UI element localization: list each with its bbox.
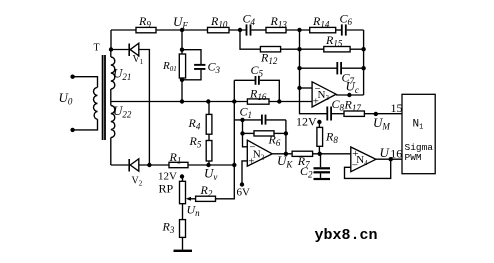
resistor R4 <box>206 114 212 134</box>
wire minus-node vertical x=299.5 <box>300 30 327 114</box>
node Uv <box>206 163 210 167</box>
capacitor C7 <box>336 62 342 74</box>
node R12-R15 <box>297 47 301 51</box>
svg-text:PWM: PWM <box>405 152 422 163</box>
wire N3 minus input <box>300 87 313 89</box>
wire U22 bottom lead <box>110 138 112 166</box>
capacitor C2 <box>314 167 331 173</box>
ground <box>174 250 193 252</box>
wire R7 to N4 <box>313 153 351 155</box>
wire U22 top lead <box>110 102 112 106</box>
node R15 right <box>361 47 365 51</box>
wire N4 output <box>376 158 402 160</box>
wire R14 to C6 <box>336 29 341 31</box>
node Uv-R2 junction <box>232 163 236 167</box>
wire U22 to V2 <box>111 164 129 166</box>
capacitor C8 <box>326 107 332 121</box>
resistor R17 <box>344 111 364 116</box>
diode V1 <box>128 43 138 56</box>
wire C7 right <box>342 67 364 69</box>
wire top rail left segment <box>111 29 136 31</box>
wire node to R15 <box>300 48 324 50</box>
node R6 right <box>284 131 288 135</box>
diode V2 <box>128 159 138 172</box>
svg-text:UK: UK <box>277 153 293 170</box>
svg-text:UM: UM <box>373 115 390 132</box>
wire R12 to node <box>281 48 300 50</box>
resistor R14 <box>310 27 336 32</box>
node C5 right <box>277 99 281 103</box>
wire R4 top lead <box>208 102 210 115</box>
wire RP bottom to R3 <box>182 204 184 220</box>
wire feedback vertical right <box>363 30 365 95</box>
svg-text:U0: U0 <box>59 90 73 107</box>
node secondary top junction <box>109 47 113 51</box>
node Uc <box>347 93 351 97</box>
node N4 output <box>389 157 393 161</box>
svg-text:R3: R3 <box>162 220 175 236</box>
wire C1 line <box>234 119 261 121</box>
node C7 left <box>297 66 301 70</box>
node N3 minus <box>297 86 301 90</box>
capacitor C5 <box>255 76 260 85</box>
resistor R2 <box>196 196 216 201</box>
transformer primary terminals <box>70 75 74 79</box>
wire R17 to pin 15 <box>364 113 402 115</box>
wire C2 to ground <box>320 173 322 178</box>
svg-text:R14: R14 <box>312 14 330 30</box>
svg-text:C3: C3 <box>208 60 221 76</box>
svg-text:R4: R4 <box>188 116 201 132</box>
wire C6 to right corner <box>347 29 364 31</box>
svg-text:R2: R2 <box>200 183 213 199</box>
svg-text:C5: C5 <box>251 63 264 79</box>
svg-text:R5: R5 <box>189 134 202 150</box>
wire C3 bottom <box>182 70 201 80</box>
main mid rail (center tap to N3 plus) <box>111 101 312 103</box>
wire U21 bottom lead to tap <box>110 89 112 102</box>
wire R15 to right vertical <box>350 48 364 50</box>
node C1 left <box>240 118 244 122</box>
resistor R1 <box>169 162 188 167</box>
wire R12 left vertical <box>240 30 260 49</box>
svg-text:C6: C6 <box>340 12 353 28</box>
block N1 Sigma PWM <box>402 94 435 173</box>
potentiometer RP <box>180 181 186 203</box>
capacitor C4 <box>246 24 252 35</box>
svg-text:R12: R12 <box>260 51 278 67</box>
resistor R6 <box>254 131 274 136</box>
svg-text:Un: Un <box>187 203 201 219</box>
wire N4 feedback <box>345 159 391 178</box>
svg-text:R10: R10 <box>210 14 228 30</box>
op-amp N3 <box>312 82 336 107</box>
wire primary bottom <box>73 119 98 130</box>
svg-text:Uc: Uc <box>346 79 359 96</box>
wire C5 right <box>260 80 280 101</box>
secondary U21 winding <box>111 57 115 89</box>
svg-text:C1: C1 <box>240 105 253 121</box>
wire C7 left <box>300 67 337 69</box>
capacitor C3 <box>194 64 205 70</box>
node UM <box>374 112 378 116</box>
svg-text:R9: R9 <box>138 14 151 30</box>
wire R6 line left <box>243 132 255 134</box>
wire C2 top <box>320 154 322 167</box>
resistor R10 <box>208 27 230 32</box>
wire C4 to R13 <box>251 29 266 31</box>
wire R5 bottom <box>208 161 210 165</box>
node R01 bottom <box>180 78 184 82</box>
wire N2 feedback right vertical <box>285 120 287 154</box>
node R6 left <box>240 131 244 135</box>
primary winding <box>94 87 98 119</box>
svg-text:ybx8.cn: ybx8.cn <box>315 227 378 244</box>
wire R4-R5 <box>208 134 210 140</box>
wire R10 to C4 <box>229 29 246 31</box>
resistor R7 <box>292 151 313 156</box>
wire N2 plus input to 6V <box>242 161 247 185</box>
node R01 top <box>180 48 184 52</box>
svg-text:+: + <box>313 96 319 108</box>
wire R3 to ground <box>182 237 184 249</box>
svg-text:R15: R15 <box>325 33 343 49</box>
wire R1 to Uv <box>188 164 234 166</box>
node N2 output feedback <box>284 152 288 156</box>
svg-text:C8: C8 <box>332 97 345 113</box>
resistor R12 <box>260 47 280 52</box>
wire N3 output <box>336 94 364 96</box>
svg-text:R13: R13 <box>270 14 288 30</box>
svg-text:V1: V1 <box>133 54 144 66</box>
svg-text:R6: R6 <box>268 133 281 149</box>
node UF <box>180 28 184 32</box>
node R10-C4 <box>238 28 242 32</box>
svg-text:6V: 6V <box>237 187 251 199</box>
node R01-C3 bottom on rail <box>180 99 184 103</box>
svg-text:UF: UF <box>173 14 188 31</box>
node R13-R14 <box>297 28 301 32</box>
svg-text:16: 16 <box>390 147 402 161</box>
wire Uv vertical x=234.3 <box>216 80 235 199</box>
svg-text:U: U <box>380 145 391 160</box>
resistor R15 <box>324 47 350 52</box>
node 6V <box>240 182 244 186</box>
wire V2 to R1 <box>139 164 169 166</box>
svg-text:R1: R1 <box>169 150 182 166</box>
svg-text:+: + <box>248 156 254 168</box>
wire C8 to R17 <box>332 113 344 115</box>
node 12V R8 <box>317 120 321 124</box>
svg-text:12V: 12V <box>296 115 317 129</box>
wire R8 to node <box>318 146 320 154</box>
svg-text:R01: R01 <box>162 60 177 73</box>
svg-text:15: 15 <box>391 101 403 115</box>
wire C5 left <box>234 79 254 81</box>
wire primary top <box>73 77 98 88</box>
wire 12V to RP <box>182 177 184 182</box>
resistor R8 <box>317 127 323 146</box>
wire R6 right <box>274 132 286 134</box>
svg-text:T: T <box>94 43 100 54</box>
svg-text:R8: R8 <box>325 130 338 146</box>
RP wiper arrow <box>186 197 196 201</box>
wire V1 to vertical <box>139 50 150 166</box>
op-amp N2 <box>247 140 272 166</box>
svg-text:RP: RP <box>159 182 174 196</box>
resistor R01 <box>179 54 185 78</box>
wire junction to V1 <box>111 49 128 51</box>
capacitor C6 <box>341 24 347 35</box>
svg-text:C2: C2 <box>300 164 313 180</box>
secondary U22 winding <box>111 106 115 138</box>
capacitor C1 <box>261 115 266 125</box>
wire 12V to R8 <box>318 122 320 127</box>
resistor R9 <box>136 27 156 32</box>
node R4 top <box>206 99 210 103</box>
wire U21 top lead <box>110 50 112 58</box>
svg-text:Uv: Uv <box>204 165 217 182</box>
ground C2 <box>314 178 331 180</box>
resistor R5 <box>206 141 212 162</box>
svg-text:R17: R17 <box>344 98 362 114</box>
svg-text:U22: U22 <box>113 103 132 120</box>
op-amp N4 <box>351 147 376 172</box>
wire C3 branch <box>182 50 201 64</box>
wire N2 output <box>272 153 292 155</box>
svg-text:V2: V2 <box>132 176 143 188</box>
wire R13 to R14 <box>286 29 310 31</box>
svg-text:C4: C4 <box>243 12 256 28</box>
svg-text:U21: U21 <box>113 66 131 83</box>
wire R9 to UF <box>156 29 208 31</box>
svg-text:−: − <box>352 160 358 172</box>
node C7 right <box>361 66 365 70</box>
wire N2 feedback left vertical <box>243 120 248 147</box>
node rail-Uv vertical <box>232 99 236 103</box>
wire C1 right <box>266 119 286 121</box>
node 12V RP <box>180 174 184 178</box>
svg-text:R16: R16 <box>249 87 267 103</box>
wire top-left vertical <box>110 30 112 50</box>
wire UF branch vertical <box>181 30 183 102</box>
transformer core <box>102 55 106 140</box>
node R7-R8-C2 <box>318 152 322 156</box>
resistor R3 <box>180 220 186 238</box>
node diode join <box>147 163 151 167</box>
resistor R16 <box>247 99 269 104</box>
resistor R13 <box>266 27 286 32</box>
